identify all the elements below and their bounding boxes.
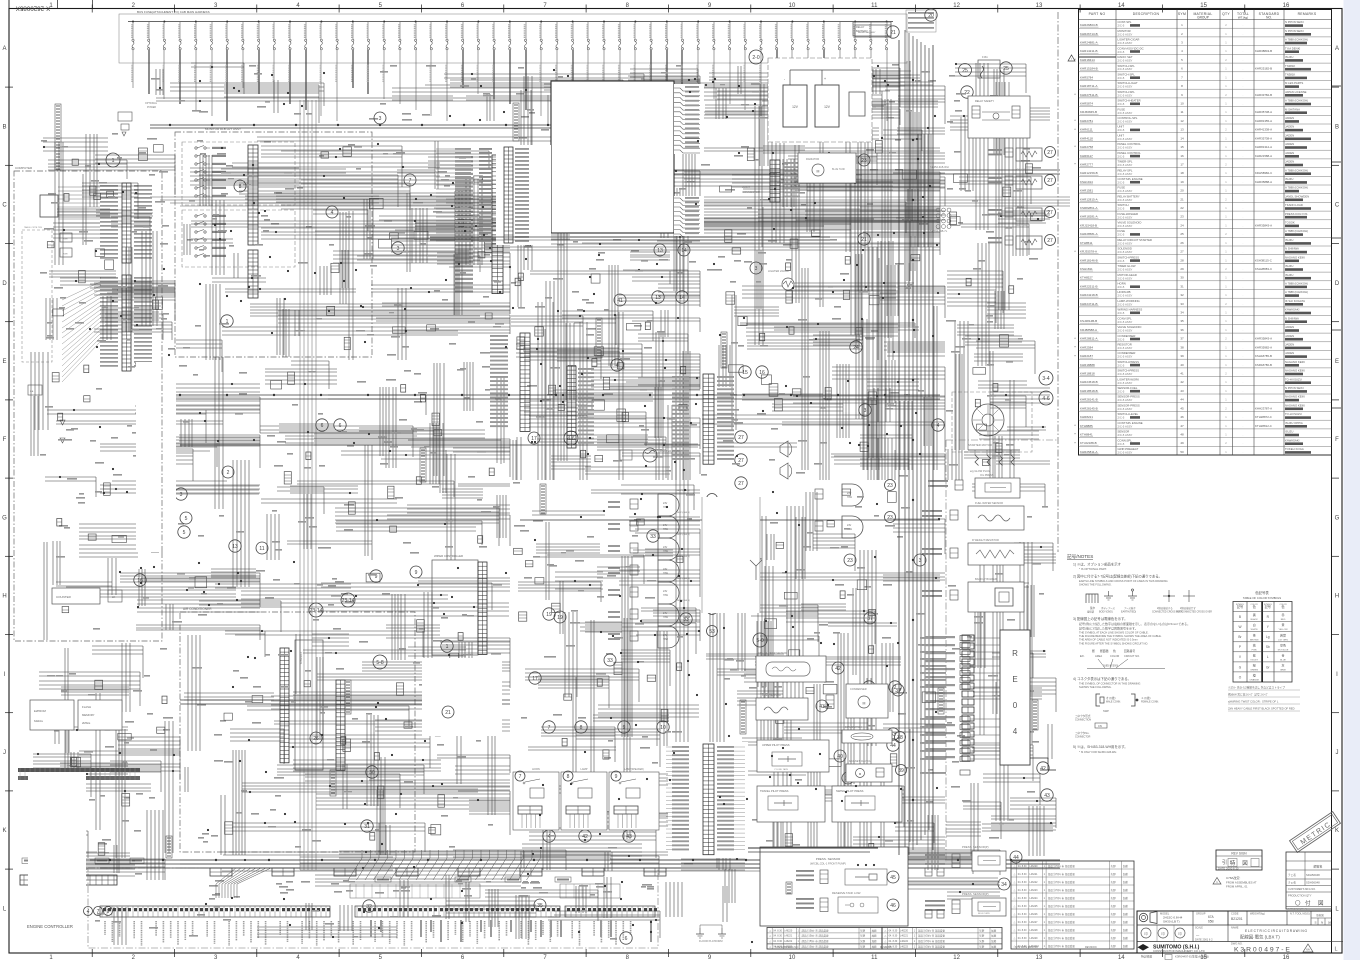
svg-text:KHR28141-B: KHR28141-B	[1080, 398, 1098, 402]
svg-text:2/C-5 ASSY: 2/C-5 ASSY	[1118, 320, 1133, 324]
note 2 cross not connected	[1183, 595, 1195, 597]
computer connector comb upper	[122, 183, 131, 263]
grid column tick bottom	[832, 949, 834, 957]
svg-text:NAGANO KEIKI: NAGANO KEIKI	[1285, 360, 1305, 364]
svg-text:空色: 空色	[1280, 642, 1286, 647]
computer dashed subbox	[22, 230, 52, 362]
svg-text:10: 10	[789, 955, 796, 960]
svg-text:12: 12	[1180, 119, 1184, 123]
svg-text:2/C-5 ASSY: 2/C-5 ASSY	[1118, 329, 1133, 333]
svg-text:2/C-5: 2/C-5	[1118, 102, 1125, 106]
svg-text:12: 12	[953, 3, 960, 9]
svg-text:RADIATOR: RADIATOR	[806, 157, 819, 161]
svg-text:配線図·電気 (LBX T): 配線図·電気 (LBX T)	[1240, 934, 1280, 941]
svg-text:EARTH LINE SYMBOLS AND CROSS P: EARTH LINE SYMBOLS AND CROSS POINT OF LI…	[1079, 579, 1168, 583]
svg-text:部品①(5ｶ/ｷ·市 部品変更: 部品①(5ｶ/ｷ·市 部品変更	[1048, 944, 1075, 948]
svg-text:E: E	[1012, 675, 1017, 684]
svg-text:27: 27	[1047, 238, 1053, 244]
svg-text:6: 6	[625, 936, 628, 942]
svg-text:BATTERY: BATTERY	[856, 29, 868, 33]
svg-text:LAMP(CAB R): LAMP(CAB R)	[676, 577, 690, 580]
svg-text:04. 8.30: 04. 8.30	[773, 940, 782, 943]
svg-text:64kbits: 64kbits	[34, 719, 43, 723]
tall comb mid-left2	[567, 366, 576, 448]
svg-text:JADEN: JADEN	[1285, 142, 1294, 146]
svg-text:部品①(5ｶ/ｷ·市 部品変更: 部品①(5ｶ/ｷ·市 部品変更	[1048, 896, 1075, 900]
svg-text:2/C-5: 2/C-5	[1118, 363, 1125, 367]
computer comb lower fanout	[62, 282, 100, 382]
svg-text:COUNTER: COUNTER	[56, 595, 72, 599]
svg-text:JADEN: JADEN	[1285, 334, 1294, 338]
svg-text:KTH28812-C: KTH28812-C	[1255, 424, 1272, 428]
svg-text:16: 16	[759, 370, 765, 376]
svg-text:GRAY: GRAY	[1280, 669, 1287, 672]
svg-text:△: △	[1014, 865, 1016, 868]
parts table column line	[1232, 10, 1234, 456]
svg-text:3: 3	[397, 246, 400, 252]
svg-text:加藤: 加藤	[1123, 888, 1129, 892]
svg-text:2/C-5 ASSY: 2/C-5 ASSY	[1118, 276, 1133, 280]
svg-text:UPPER PILOT PRESS: UPPER PILOT PRESS	[762, 743, 790, 747]
svg-text:10: 10	[660, 725, 666, 731]
svg-text:Lg: Lg	[1266, 635, 1270, 639]
svg-text:KHR8221: KHR8221	[1080, 415, 1093, 419]
svg-text:GROUP: GROUP	[1197, 16, 1209, 20]
grid column tick bottom	[585, 949, 587, 957]
svg-text:AIR CONDITIONER: AIR CONDITIONER	[183, 607, 212, 611]
svg-text:加藤: 加藤	[991, 928, 997, 932]
atb oil temp sensor	[756, 656, 826, 682]
svg-text:W: W	[1238, 625, 1241, 629]
svg-text:矢野: 矢野	[1111, 888, 1117, 892]
svg-text:* IS ONLY FOR SH450-3LB-WH.: * IS ONLY FOR SH450-3LB-WH.	[1079, 750, 1117, 754]
starter motor block	[972, 404, 1004, 436]
svg-text:BODY(GND): BODY(GND)	[1099, 611, 1113, 614]
left column counter box	[52, 588, 100, 604]
svg-text:2/C-5: 2/C-5	[1118, 128, 1125, 132]
svg-text:3) 配線図上の記号は電線色を示す。: 3) 配線図上の記号は電線色を示す。	[1073, 616, 1127, 621]
svg-text:21: 21	[861, 237, 867, 243]
svg-text:N SHINWA: N SHINWA	[1285, 316, 1299, 320]
svg-text:2/C-5 ASSY: 2/C-5 ASSY	[1118, 398, 1133, 402]
svg-text:A 7888 (ICHIKOH): A 7888 (ICHIKOH)	[1285, 282, 1308, 286]
svg-text:加藤: 加藤	[1123, 912, 1129, 916]
svg-text:KHR35843-A: KHR35843-A	[1255, 223, 1272, 227]
svg-text:24V: 24V	[663, 524, 668, 527]
svg-text:45: 45	[1180, 406, 1184, 410]
svg-text:部品①(5ｶ/ｷ·市 部品変更: 部品①(5ｶ/ｷ·市 部品変更	[802, 945, 829, 949]
pilot press upper box	[757, 740, 829, 772]
svg-text:SYM DATE DWG NO: SYM DATE DWG NO	[1015, 946, 1038, 949]
svg-text:矢野: 矢野	[860, 945, 866, 949]
svg-text:F: F	[1335, 437, 1339, 443]
svg-text:特記措置: 特記措置	[1141, 955, 1152, 959]
svg-text:K: K	[2, 828, 6, 834]
svg-text:2/C-5 ASSY: 2/C-5 ASSY	[1118, 67, 1133, 71]
svg-text:KSH1811: KSH1811	[1080, 267, 1093, 271]
floor ground symbol 2	[721, 928, 723, 934]
svg-text:AREA: AREA	[1095, 654, 1102, 658]
svg-text:B21201: B21201	[1231, 917, 1243, 921]
svg-text:2Mbits: 2Mbits	[82, 721, 91, 725]
resistor relay rows right	[1005, 148, 1013, 157]
warning triangle parts row5	[1068, 55, 1075, 61]
svg-text:NAGANO KEIKI: NAGANO KEIKI	[1285, 403, 1305, 407]
svg-text:37: 37	[1180, 337, 1184, 341]
svg-text:矢野: 矢野	[979, 945, 985, 949]
svg-text:KHR26803-B: KHR26803-B	[1080, 23, 1098, 27]
texture far-right region	[947, 63, 1050, 480]
svg-text:L46227: L46227	[1030, 921, 1039, 924]
svg-text:70W: 70W	[663, 594, 669, 597]
svg-text:部品①(5ｶ/ｷ·市 部品変更: 部品①(5ｶ/ｷ·市 部品変更	[1048, 880, 1075, 884]
monitor switches	[195, 147, 197, 149]
white clearing patch b	[422, 658, 502, 736]
svg-text:KRJ35578-A: KRJ35578-A	[1080, 250, 1097, 254]
grid column tick top	[338, 5, 340, 13]
svg-text:C: C	[1335, 203, 1340, 209]
svg-text:KDH58982-C: KDH58982-C	[1255, 171, 1272, 175]
svg-text:※2ｶﾗｰ 先から2種類子記し 色などはストライプ: ※2ｶﾗｰ 先から2種類子記し 色などはストライプ	[1228, 686, 1285, 690]
white clearing patch d	[28, 772, 86, 892]
svg-text:N.T. TOOL NO(S): N.T. TOOL NO(S)	[1290, 913, 1310, 916]
svg-text:16: 16	[1283, 955, 1290, 960]
svg-text:NAGANO KEIKI: NAGANO KEIKI	[1285, 255, 1305, 259]
junction dots scatter	[89, 65, 938, 943]
svg-text:加藤: 加藤	[872, 928, 878, 932]
svg-text:2/C-5: 2/C-5	[1118, 311, 1125, 315]
svg-text:2)IN HEAVY CABLE FIRST BLACK S: 2)IN HEAVY CABLE FIRST BLACK SPOTTED OF …	[1228, 707, 1295, 711]
svg-text:9: 9	[615, 774, 618, 780]
svg-text:A 7888 (ICHIKOH): A 7888 (ICHIKOH)	[1285, 290, 1308, 294]
svg-text:7: 7	[409, 178, 412, 184]
svg-text:加藤: 加藤	[872, 934, 878, 938]
svg-text:白: 白	[1253, 622, 1256, 627]
svg-text:42: 42	[1040, 766, 1046, 772]
svg-text:JANDL SHOWDEN: JANDL SHOWDEN	[1285, 194, 1309, 198]
svg-text:15: 15	[1200, 3, 1207, 9]
svg-text:43: 43	[819, 704, 825, 710]
svg-text:CONSTRUCTION MACHINERY CO.,LTD: CONSTRUCTION MACHINERY CO.,LTD	[1153, 949, 1205, 953]
svg-text:04. 8.30: 04. 8.30	[889, 935, 898, 938]
svg-text:2/C-5: 2/C-5	[1118, 390, 1125, 394]
parts table column line	[1187, 10, 1189, 456]
engine controller circles	[84, 907, 93, 916]
grid row tick right	[1332, 712, 1340, 714]
svg-text:KSR82861-A: KSR82861-A	[1080, 206, 1098, 210]
svg-text:3: 3	[755, 266, 758, 272]
svg-text:24V: 24V	[663, 502, 668, 505]
comb mid right	[703, 374, 714, 464]
svg-text:CODE: CODE	[1231, 912, 1239, 916]
svg-text:L46221: L46221	[1030, 873, 1039, 876]
svg-text:TOSOK: TOSOK	[1285, 221, 1295, 225]
svg-text:0.85 B 5XX: 0.85 B 5XX	[1103, 664, 1118, 668]
svg-text:A: A	[2, 46, 6, 52]
svg-text:部品①(5ｶ/ｷ·市 部品変更: 部品①(5ｶ/ｷ·市 部品変更	[802, 934, 829, 938]
svg-text:CONDENSER: CONDENSER	[850, 687, 867, 691]
grid row tick right	[1332, 634, 1340, 636]
grid column tick top	[997, 5, 999, 13]
svg-text:KHR41338-A: KHR41338-A	[1255, 128, 1272, 132]
svg-text:RED: RED	[1281, 619, 1286, 621]
svg-text:TRAVEL PILOT PRESS: TRAVEL PILOT PRESS	[760, 789, 789, 793]
RE04 pin rows lower	[920, 718, 946, 720]
engine controller hanging labels	[105, 921, 631, 946]
svg-text:X-2620085X: X-2620085X	[16, 5, 50, 12]
extra density band trunkzone	[846, 75, 945, 470]
svg-text:43: 43	[1180, 389, 1184, 393]
svg-text:10: 10	[789, 3, 796, 9]
svg-text:KHR35738-A: KHR35738-A	[1255, 136, 1272, 140]
svg-text:44: 44	[1013, 855, 1019, 861]
svg-text:記号/NOTES: 記号/NOTES	[1067, 553, 1093, 560]
svg-text:チェ者: チェ者	[1288, 881, 1296, 885]
svg-text:35: 35	[537, 903, 543, 909]
texture top fuse drops region	[156, 63, 900, 125]
svg-text:JADEN: JADEN	[1285, 351, 1294, 355]
antenna symbol	[755, 566, 757, 580]
svg-text:14: 14	[1118, 955, 1125, 960]
svg-text:2/C-5: 2/C-5	[1118, 442, 1125, 446]
svg-text:STARTER MOTOR: STARTER MOTOR	[968, 443, 992, 447]
svg-text:L46221: L46221	[784, 935, 793, 938]
svg-text:27: 27	[738, 481, 744, 487]
svg-text:KHR14211-B: KHR14211-B	[1080, 49, 1097, 53]
svg-text:ORANGE: ORANGE	[1249, 679, 1259, 682]
svg-text:FEMALE CONN.: FEMALE CONN.	[1141, 701, 1159, 704]
mid horizontal bus lower	[180, 859, 1060, 861]
svg-text:P: P	[1239, 645, 1241, 649]
svg-text:2/C-5 ASSY: 2/C-5 ASSY	[1118, 163, 1133, 167]
svg-text:△: △	[1014, 905, 1016, 908]
svg-text:N SHINWA: N SHINWA	[1285, 247, 1299, 251]
svg-text:S: S	[1315, 921, 1317, 925]
svg-text:部品①(5ｶ/ｷ·市 部品変更: 部品①(5ｶ/ｷ·市 部品変更	[1048, 872, 1075, 876]
circled reference numbers	[221, 315, 233, 327]
grid column tick bottom	[1162, 949, 1164, 957]
texture right-top region	[702, 61, 945, 480]
condenser box	[846, 684, 888, 718]
svg-text:24V: 24V	[847, 492, 852, 495]
svg-text:KTH8885: KTH8885	[1080, 424, 1093, 428]
texture left-mid region	[31, 340, 260, 640]
svg-text:加藤: 加藤	[1123, 944, 1129, 948]
svg-text:ATB.O/L TEMP SENSOR: ATB.O/L TEMP SENSOR	[758, 651, 787, 655]
svg-text:回路番号: 回路番号	[1124, 649, 1135, 653]
fuse drop wires	[133, 50, 887, 121]
svg-text:2/C-5 ASSY: 2/C-5 ASSY	[1118, 381, 1133, 385]
parts row5 underline mark	[1079, 56, 1117, 58]
svg-text:2/C-5: 2/C-5	[1118, 76, 1125, 80]
svg-text:青: 青	[1281, 652, 1284, 657]
fuse bus junction dots	[132, 21, 888, 23]
press sensor symbol 1	[845, 869, 887, 885]
svg-text:BLUE: BLUE	[1280, 659, 1286, 661]
sensor region dash boundary	[945, 440, 947, 862]
svg-text:SDH56048: SDH56048	[1306, 873, 1320, 877]
svg-text:04. 8.30: 04. 8.30	[1018, 905, 1027, 908]
svg-text:D: D	[1335, 281, 1340, 287]
svg-text:JADEN: JADEN	[1285, 116, 1294, 120]
computer connector comb lower	[122, 275, 131, 371]
svg-text:16: 16	[1180, 154, 1184, 158]
svg-text:FLOOR PLATFORM: FLOOR PLATFORM	[699, 939, 723, 943]
changeover right fan upper	[674, 84, 704, 154]
svg-text:70W: 70W	[663, 528, 669, 531]
svg-text:WIPER CONTROLLER: WIPER CONTROLLER	[434, 554, 463, 558]
grid column tick top	[256, 5, 258, 13]
svg-text:8: 8	[580, 725, 583, 731]
svg-text:11: 11	[259, 546, 264, 552]
svg-text:5: 5	[183, 530, 186, 536]
svg-text:KAWASAKI: KAWASAKI	[1285, 438, 1300, 442]
svg-text:KSH38115-C: KSH38115-C	[1255, 258, 1272, 262]
RE04 box	[1000, 630, 1030, 765]
svg-text:14: 14	[1180, 136, 1184, 140]
svg-text:FUEL WATER SENSOR: FUEL WATER SENSOR	[975, 501, 1003, 505]
svg-text:WHITE: WHITE	[1251, 629, 1259, 631]
svg-text:KHR28581-A: KHR28581-A	[1080, 232, 1098, 236]
metric stamp	[1290, 812, 1341, 853]
svg-text:12V: 12V	[792, 105, 799, 109]
svg-text:矢野: 矢野	[1111, 880, 1117, 884]
revision table right tall	[1011, 861, 1134, 949]
svg-text:3-4: 3-4	[1042, 376, 1049, 382]
svg-text:13: 13	[1180, 128, 1184, 132]
svg-text:LAMP(CAB R): LAMP(CAB R)	[676, 621, 690, 624]
svg-text:a)WIRING TWIST COLOR : STRIPE: a)WIRING TWIST COLOR : STRIPE OF L	[1228, 700, 1279, 704]
svg-text:14: 14	[681, 248, 687, 254]
svg-text:2/C-5 ASSY: 2/C-5 ASSY	[1118, 137, 1133, 141]
engine controller pins	[102, 906, 653, 917]
svg-text:B: B	[2, 124, 6, 130]
svg-text:47: 47	[1180, 424, 1184, 428]
changeover unit left comb	[496, 145, 551, 245]
dipl switch	[842, 730, 892, 743]
svg-text:2/C-5 ASSY: 2/C-5 ASSY	[1118, 85, 1133, 89]
svg-text:SH30 (LB T): SH30 (LB T)	[1163, 920, 1180, 924]
svg-text:TN381K: TN381K	[1285, 73, 1295, 77]
note 2 ground symbol 1	[1104, 595, 1113, 597]
svg-text:44: 44	[890, 743, 896, 749]
svg-text:19: 19	[557, 615, 563, 621]
grid row tick right	[1332, 868, 1340, 870]
svg-text:10: 10	[1180, 102, 1184, 106]
grid column tick bottom	[997, 949, 999, 957]
svg-text:M LES PARTS: M LES PARTS	[1285, 81, 1303, 85]
svg-text:PRODUCTION QTY: PRODUCTION QTY	[1288, 894, 1312, 898]
svg-text:22: 22	[1180, 206, 1184, 210]
svg-text:取扱図: 取扱図	[1316, 913, 1324, 917]
svg-text:LGT GRN: LGT GRN	[1278, 639, 1288, 641]
svg-text:LAMP(CAB R): LAMP(CAB R)	[676, 533, 690, 536]
monitor connector comb	[248, 145, 258, 245]
relay battery label box	[853, 22, 891, 36]
svg-text:CONNECTOR: CONNECTOR	[742, 190, 760, 194]
grid column tick top	[915, 5, 917, 13]
svg-text:M: M	[863, 702, 866, 706]
svg-text:YELLOW: YELLOW	[1278, 629, 1288, 631]
grid column tick bottom	[750, 949, 752, 957]
small conn pairs right bottom	[925, 868, 932, 876]
svg-text:TABLE CRTE 7R5: TABLE CRTE 7R5	[24, 226, 43, 229]
svg-text:M SHITANA: M SHITANA	[1285, 107, 1300, 111]
sumitomo logo	[1138, 944, 1150, 951]
svg-text:矢野: 矢野	[1111, 928, 1117, 932]
svg-text:灰: 灰	[1281, 663, 1284, 668]
svg-text:△: △	[1014, 873, 1016, 876]
tall comb mid-left	[520, 333, 530, 431]
svg-text:NAGANO KEIKI: NAGANO KEIKI	[1285, 395, 1305, 399]
svg-text:SYM: SYM	[1178, 12, 1186, 16]
grid column tick bottom	[256, 949, 258, 957]
circled 3 lighter	[750, 262, 762, 274]
texture bottom hanging labels	[370, 920, 372, 937]
svg-text:24V: 24V	[663, 546, 668, 549]
svg-text:KHR81312-A: KHR81312-A	[1255, 145, 1272, 149]
horn speaker 2	[780, 463, 788, 479]
revision table mid-left	[767, 928, 882, 950]
svg-text:J: J	[1336, 750, 1339, 756]
svg-text:49: 49	[1180, 441, 1184, 445]
svg-text:色: 色	[1113, 649, 1116, 653]
computer left proc box	[40, 195, 58, 217]
svg-text:2/C-5 ASSY: 2/C-5 ASSY	[1118, 407, 1133, 411]
svg-text:04. 8.30: 04. 8.30	[1018, 881, 1027, 884]
far left cn boxes	[22, 858, 36, 864]
svg-text:TO-HI ISUZU: TO-HI ISUZU	[1285, 377, 1302, 381]
svg-text:MEMORY: MEMORY	[82, 713, 95, 717]
grid column tick bottom	[421, 949, 423, 957]
svg-text:2/C-5 ASSY: 2/C-5 ASSY	[1118, 451, 1133, 455]
svg-text:L46225: L46225	[1030, 905, 1039, 908]
svg-text:黄: 黄	[1281, 622, 1284, 627]
grid row tick right	[1332, 477, 1340, 479]
svg-text:N PPON SEIKI: N PPON SEIKI	[1285, 20, 1304, 24]
svg-text:L46228: L46228	[1030, 929, 1039, 932]
svg-text:部品①(5ｶ/ｷ·市 部品変更: 部品①(5ｶ/ｷ·市 部品変更	[918, 945, 945, 949]
svg-text:PRESS. SENSOR(P): PRESS. SENSOR(P)	[962, 845, 989, 849]
svg-text:DATE 2001 6 2: DATE 2001 6 2	[1195, 938, 1213, 942]
cn ref boxed labels	[375, 877, 391, 882]
svg-text:FROM APRIL, 01: FROM APRIL, 01	[1226, 885, 1248, 889]
svg-text:DIPL SWITCH: DIPL SWITCH	[845, 725, 862, 729]
svg-text:20: 20	[928, 13, 934, 19]
svg-text:4: 4	[87, 909, 90, 915]
bus fuse top rail	[128, 21, 893, 23]
svg-text:ISUZU: ISUZU	[1285, 55, 1293, 59]
grid column tick top	[1079, 5, 1081, 13]
svg-text:2/C-5 ASSY: 2/C-5 ASSY	[1118, 189, 1133, 193]
svg-text:KHR2187: KHR2187	[1080, 354, 1093, 358]
svg-text:部品①(5ｶ/ｷ·市 部品変更: 部品①(5ｶ/ｷ·市 部品変更	[1048, 928, 1075, 932]
main title block frame	[1137, 911, 1332, 953]
svg-text:GREEN: GREEN	[1250, 670, 1258, 672]
svg-text:26: 26	[313, 736, 319, 742]
svg-text:黒: 黒	[1253, 613, 1256, 617]
svg-text:JADEN: JADEN	[1285, 343, 1294, 347]
svg-text:KAWASAKI: KAWASAKI	[1285, 308, 1300, 312]
rev sign box	[1216, 850, 1262, 870]
left protect diode cluster	[28, 385, 42, 395]
svg-text:04. 8.30: 04. 8.30	[773, 929, 782, 932]
rotated label blocks	[721, 332, 727, 368]
RE04 right exit wire	[1030, 758, 1048, 770]
parts table rows	[1079, 27, 1332, 29]
diagonal wire fan bottom	[348, 850, 362, 880]
svg-text:T KA DENKI: T KA DENKI	[1285, 46, 1301, 50]
